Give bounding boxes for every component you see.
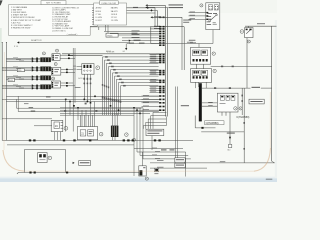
component box P3	[51, 81, 60, 88]
wire from fuse table to junction J3	[127, 12, 156, 14]
feed wire F5	[150, 27, 164, 30]
ground bus bar heavy	[199, 83, 202, 121]
main feed wire across top of diagram	[19, 39, 130, 42]
svg-text:TR30C: TR30C	[107, 35, 113, 37]
wires ground bar to control unit E1 upper	[201, 101, 217, 104]
svg-text:(CONT ONLY): (CONT ONLY)	[52, 30, 65, 32]
svg-text:E1102: E1102	[106, 51, 111, 53]
mesh drop wire D8	[94, 102, 96, 128]
feed wire F4	[150, 25, 164, 28]
mesh label tags	[24, 97, 97, 112]
wire riser to relay box R1 pin b	[164, 27, 184, 70]
wire from relay K3 down to bus B+	[246, 38, 248, 89]
wires from P2 to riser pair	[61, 69, 75, 73]
connector strip tail stub	[165, 117, 167, 126]
header wire H2	[68, 55, 103, 57]
connector code label CHK2	[205, 121, 224, 125]
feed wire F3 with arrow	[150, 16, 164, 18]
node stub on distribution bus	[98, 27, 100, 30]
module Q1 id circle	[96, 66, 100, 70]
mesh wire M6	[60, 107, 143, 109]
connector block CB1	[40, 57, 51, 62]
bundle B wire tags	[152, 148, 160, 159]
control unit E1 pin drop 3 to ground	[229, 112, 231, 144]
inline fuse box W76	[8, 78, 14, 81]
distribution bus wire	[90, 26, 157, 28]
wires into connector block CB2	[2, 66, 40, 71]
connector D2 bottom pins	[113, 137, 116, 140]
page curvature shading right edge	[269, 92, 271, 148]
component box P1	[52, 54, 60, 61]
relay module box R2	[191, 69, 212, 83]
wire lower right L2	[201, 132, 244, 134]
page background	[0, 0, 277, 182]
svg-text:8A BRN: 8A BRN	[111, 7, 118, 10]
riser labels W14	[183, 20, 191, 23]
svg-text:A RED: A RED	[96, 7, 102, 10]
bundle C destination label box T5	[146, 129, 164, 135]
component P1 id circle	[56, 49, 59, 52]
mesh wire M8	[60, 112, 150, 114]
mesh wire M3	[6, 101, 159, 103]
svg-text:30 BATT 12V: 30 BATT 12V	[31, 39, 42, 42]
page corner printed mark	[266, 179, 273, 180]
ignition switch S1	[206, 3, 220, 30]
pilot lamp symbol at relay K3	[240, 30, 244, 34]
component box P2	[51, 67, 61, 75]
mesh wire M4 with corner from rail	[17, 99, 142, 108]
left bus rail 2	[5, 43, 7, 141]
wire from fuse table to junction J1	[127, 7, 156, 9]
module B21 top pins	[81, 115, 93, 126]
stubs between relay modules R1 R2	[197, 64, 204, 69]
ignition switch S1 output drop	[212, 30, 214, 44]
riser wire pair right V2	[243, 88, 245, 163]
sensor box inside G1	[38, 153, 47, 163]
wire from relay R1 to page edge	[211, 66, 272, 68]
page curvature shading bottom left corner	[3, 150, 24, 171]
mesh drop wire D2	[69, 102, 71, 116]
bundle B tail to bottom	[133, 149, 135, 177]
mesh drop wire D1	[65, 99, 67, 131]
relay module R2 bottom pin row	[193, 76, 208, 78]
wire row 2 to strip	[122, 36, 159, 39]
wire drop to distribution bus	[154, 8, 156, 27]
svg-text:G4: G4	[123, 51, 125, 53]
wire row from T1 to strip row 1	[118, 33, 159, 36]
relay module box R1	[191, 47, 211, 64]
feed wire F2 with arrow	[145, 6, 183, 8]
sender unit M1	[139, 166, 146, 176]
page edge bottom corner join	[272, 161, 275, 163]
bottom bus wire W145	[7, 144, 134, 146]
module Q1 pin leg 1	[84, 74, 86, 99]
relay R2 pin drop wires	[196, 82, 207, 88]
ground distribution frame G1	[25, 150, 66, 173]
wires from P3 to riser pair	[61, 82, 76, 86]
control unit E1 pin drop 2	[225, 112, 227, 116]
mesh wire M10 to relay K2	[2, 118, 52, 120]
svg-text:F 1.0: F 1.0	[14, 46, 18, 48]
connector strip wire stubs and labels	[142, 54, 159, 111]
legend box: fuse color code table	[94, 3, 127, 25]
connector strip rail C101 left	[164, 5, 166, 116]
sender unit M1 id circle	[145, 177, 148, 180]
wires into module Q1 left side	[73, 66, 82, 70]
connector block CB3	[40, 76, 51, 81]
connector strip rail C101 right	[167, 7, 169, 116]
corner label near riser pair	[75, 86, 81, 89]
wire row 4 to strip	[127, 42, 159, 45]
mesh junction dots	[65, 96, 141, 115]
mesh drop wire D5	[81, 110, 83, 127]
mesh wire M5 with corner from rail	[18, 96, 159, 111]
wires into connector block CB4	[2, 84, 40, 89]
ground drop arrow under row 3	[123, 44, 128, 54]
id circle near label T2	[88, 139, 90, 141]
relay module R1 bottom pin row	[193, 59, 208, 62]
feed wire F1 with arrow	[145, 4, 183, 6]
connector strip pin pairs	[159, 17, 165, 112]
wires ground bar to control unit E1 lower	[201, 104, 217, 107]
page edge rule right	[271, 26, 273, 161]
sensor id circle in G1	[48, 156, 52, 160]
wire gauge label right of strip	[181, 105, 189, 106]
stacked connector labels T3	[175, 158, 185, 162]
module B21 box	[77, 127, 97, 140]
stacked connector labels T4	[175, 163, 185, 167]
wire labels on bundle B row 1	[161, 149, 175, 150]
header wire H1	[62, 52, 165, 54]
wire stub above relay R1	[151, 42, 213, 47]
page curvature shading bottom right corner	[254, 148, 271, 171]
wire from fuse table to junction J2	[127, 9, 158, 11]
wire row 3 to strip	[122, 40, 159, 42]
wire drop to distribution bus 2	[156, 10, 158, 27]
legend box 1 column 1 item list	[11, 6, 42, 29]
svg-text:C(HLRB80): C(HLRB80)	[206, 122, 219, 125]
svg-text:C YEL: C YEL	[96, 14, 102, 16]
legend box 2 title tab	[100, 1, 119, 5]
harness bundle B wires turning right	[134, 108, 191, 159]
stubs from fuse table bottom to wire rows	[106, 25, 109, 34]
bottom wire W168	[150, 167, 207, 168]
page curvature shading left edge	[3, 52, 5, 150]
tag label on main feed near bundle A	[139, 43, 145, 44]
module Q1 pin leg 2	[87, 74, 89, 101]
control unit box E1	[217, 93, 238, 112]
svg-text:15 ORN: 15 ORN	[111, 20, 119, 22]
control unit E1 id circle 2	[239, 107, 242, 110]
wire row 0b to strip	[110, 32, 159, 35]
wires from P1 to riser pair	[60, 54, 75, 59]
main interior wire to page edge with gauge label	[201, 87, 272, 89]
svg-text:D GRN: D GRN	[96, 17, 103, 19]
mesh wire M2	[2, 98, 159, 100]
relay K3 lower id circle	[247, 40, 250, 43]
ground symbol under pin drop 3	[227, 137, 232, 152]
mesh drop wire D3	[72, 108, 74, 131]
harness bundle C wires stepping down-left	[143, 112, 166, 128]
svg-text:E WHT: E WHT	[96, 20, 103, 22]
mesh drop wire D4	[77, 108, 79, 120]
wires into connector block CB1	[6, 57, 40, 62]
bottom bus wire W140	[2, 139, 193, 141]
relay K2 id circle	[64, 126, 68, 130]
legend box 1 title tab	[41, 1, 66, 5]
connector label box T2	[73, 161, 91, 166]
connector D2 id circle	[125, 133, 129, 137]
relay module R1 id circle	[212, 52, 215, 55]
svg-text:KEY TO FUSES: KEY TO FUSES	[46, 3, 61, 5]
svg-text:W76: W76	[9, 80, 13, 82]
control unit E1 id circle	[234, 107, 237, 110]
svg-text:12 VIO: 12 VIO	[111, 17, 118, 19]
inline connector label box T1	[106, 33, 118, 37]
inline connector circle on bundle B	[133, 138, 136, 141]
riser to bottom edge	[185, 152, 187, 177]
riser from label area	[194, 116, 196, 128]
mesh wire M7	[60, 109, 159, 111]
wire riser to relay box R1 pin a	[153, 17, 182, 70]
module B21 id circle	[99, 132, 103, 136]
harness bundle A wires turning from vertical to horizontal	[103, 57, 159, 115]
ignition switch S1 id circle	[200, 4, 203, 7]
wires into connector block CB3	[6, 75, 40, 80]
module Q1 voltage regulator	[82, 64, 94, 75]
svg-text:9 HEATED RR WDW: 9 HEATED RR WDW	[11, 26, 30, 29]
inline fuse part right of M1	[154, 168, 158, 174]
svg-text:B BLU: B BLU	[96, 11, 102, 13]
control unit E1 pin drop 1	[221, 112, 223, 116]
relay K2 pin drops	[55, 132, 61, 141]
bottom wire W163 left part	[150, 160, 175, 163]
bus bar stub top	[199, 83, 201, 85]
sender unit M1 riser	[141, 152, 143, 166]
svg-text:9A GRY: 9A GRY	[111, 10, 119, 13]
wire across G1 bottom	[17, 172, 141, 175]
relay K2 feed wire	[34, 125, 52, 127]
legend box: key to circuit index	[9, 5, 98, 36]
svg-text:( continued ): ( continued )	[67, 33, 78, 36]
component P3 id circle	[52, 77, 55, 80]
svg-text:F30: F30	[18, 70, 21, 72]
mesh drop wire D6	[85, 110, 87, 127]
relay module R2 id circle	[213, 69, 216, 72]
riser pair right of component column	[73, 48, 75, 108]
bottom wire W163 right part	[184, 161, 274, 163]
mesh wire M1	[6, 95, 159, 97]
wire row 0a to strip	[104, 30, 159, 33]
battery feed arrow A1	[14, 41, 19, 48]
wire id tags on bundle A upper	[102, 84, 109, 88]
riser from bus to crossrail	[150, 27, 152, 44]
module Q1 pin leg 3	[90, 74, 92, 103]
connector block CB1 id circle	[42, 52, 45, 55]
wire ignition feed to page edge	[245, 23, 277, 26]
drop wire below label T5	[151, 136, 153, 150]
inline fuse box F30	[17, 69, 24, 72]
connector code label CHK1	[236, 116, 249, 119]
dark connector block D2	[111, 126, 119, 137]
wire riser label above relay R1	[189, 39, 196, 42]
connector block CB2	[40, 67, 51, 72]
riser pair to labels	[175, 87, 177, 158]
component P2 id circle	[54, 63, 57, 66]
junction rail 2 to feed	[6, 42, 7, 43]
legend box 1 column 2 page reference marks	[92, 8, 95, 25]
wire lower right L1	[195, 127, 215, 129]
wires into ignition switch S1	[189, 12, 209, 21]
junction rail 1 to feed	[2, 42, 3, 43]
legend box 1 column 2 item list	[52, 7, 79, 32]
callout label box for E1	[249, 99, 264, 104]
svg-text:E4 C 0.5: E4 C 0.5	[79, 78, 86, 80]
mesh wire M9	[60, 114, 134, 116]
relay R1 caption label	[187, 41, 193, 44]
svg-text:C(HLRB80): C(HLRB80)	[236, 116, 249, 119]
legend box 2 table rows	[96, 7, 119, 23]
svg-text:10 BLK: 10 BLK	[111, 14, 118, 16]
riser wire pair right V1	[241, 88, 243, 115]
relay K2 box	[51, 120, 63, 131]
left bus rail 1	[1, 43, 3, 141]
mesh drop wire D7	[90, 103, 92, 127]
svg-text:FUSE COLOUR: FUSE COLOUR	[102, 3, 117, 5]
wire id tags on bundle A	[102, 97, 122, 103]
connector D2 top pins	[113, 113, 118, 125]
svg-text:G10: G10	[227, 149, 230, 151]
connector block CB4	[40, 85, 51, 90]
wire id tags after bundle A corners	[105, 56, 126, 86]
page curvature shading bottom edge	[24, 170, 254, 172]
ignition relay K3	[245, 26, 253, 37]
